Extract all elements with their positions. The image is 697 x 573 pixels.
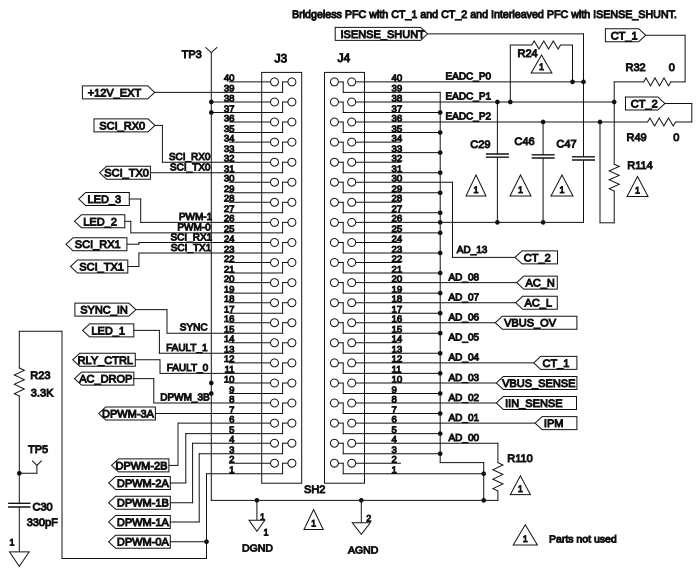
svg-text:ISENSE_SHUNT: ISENSE_SHUNT	[341, 29, 426, 41]
svg-text:J4: J4	[338, 51, 351, 65]
svg-text:10: 10	[392, 374, 403, 385]
svg-text:DPWM-2A: DPWM-2A	[117, 478, 170, 490]
svg-text:18: 18	[224, 294, 235, 305]
svg-text:38: 38	[224, 93, 235, 104]
svg-text:32: 32	[392, 154, 403, 165]
svg-text:20: 20	[392, 274, 403, 285]
svg-text:2: 2	[392, 455, 397, 466]
svg-text:14: 14	[224, 334, 235, 345]
svg-text:PWM-1: PWM-1	[179, 212, 213, 223]
svg-text:16: 16	[224, 314, 235, 325]
svg-text:LED_2: LED_2	[83, 216, 117, 228]
svg-text:TP5: TP5	[28, 444, 48, 456]
svg-text:32: 32	[224, 154, 235, 165]
svg-text:CT_1: CT_1	[611, 30, 638, 42]
svg-text:34: 34	[224, 133, 235, 144]
svg-text:SCI_RX1: SCI_RX1	[171, 232, 213, 243]
svg-text:RLY_CTRL: RLY_CTRL	[78, 355, 133, 367]
svg-text:AC_DROP: AC_DROP	[79, 374, 132, 386]
svg-text:22: 22	[224, 254, 235, 265]
svg-text:38: 38	[392, 93, 403, 104]
svg-text:26: 26	[224, 214, 235, 225]
svg-text:14: 14	[392, 334, 403, 345]
svg-text:1: 1	[559, 185, 564, 195]
svg-text:AD_04: AD_04	[449, 353, 480, 364]
svg-text:LED_3: LED_3	[88, 194, 122, 206]
svg-text:SH2: SH2	[304, 484, 325, 496]
svg-text:CT_1: CT_1	[543, 358, 570, 370]
svg-text:6: 6	[392, 414, 397, 425]
svg-text:C29: C29	[470, 139, 490, 151]
svg-text:1: 1	[10, 538, 15, 548]
svg-text:C47: C47	[556, 139, 576, 151]
svg-text:VBUS_SENSE: VBUS_SENSE	[502, 378, 575, 390]
svg-text:SCI_TX0: SCI_TX0	[170, 163, 211, 174]
svg-text:1: 1	[518, 484, 523, 494]
svg-text:0: 0	[673, 132, 679, 144]
svg-text:AD_03: AD_03	[449, 373, 480, 384]
svg-text:IPM: IPM	[544, 418, 564, 430]
svg-text:24: 24	[224, 234, 235, 245]
svg-text:DGND: DGND	[242, 543, 273, 555]
svg-text:1: 1	[539, 62, 544, 72]
svg-text:R49: R49	[627, 132, 647, 144]
svg-text:1: 1	[229, 465, 234, 476]
svg-text:AD_13: AD_13	[457, 245, 488, 256]
svg-text:CT_2: CT_2	[524, 252, 551, 264]
svg-text:EADC_P1: EADC_P1	[446, 92, 492, 103]
svg-text:28: 28	[392, 194, 403, 205]
svg-text:AD_05: AD_05	[449, 333, 480, 344]
svg-text:TP3: TP3	[182, 49, 202, 61]
svg-text:1: 1	[635, 186, 640, 196]
svg-text:3.3K: 3.3K	[31, 388, 54, 400]
svg-text:DPWM-2B: DPWM-2B	[116, 460, 168, 472]
svg-text:AD_06: AD_06	[449, 313, 480, 324]
svg-text:4: 4	[392, 435, 398, 446]
svg-text:8: 8	[392, 394, 397, 405]
svg-text:Parts not used: Parts not used	[549, 534, 617, 546]
svg-text:VBUS_OV: VBUS_OV	[504, 318, 557, 330]
svg-text:26: 26	[392, 214, 403, 225]
svg-text:R23: R23	[30, 370, 50, 382]
svg-text:40: 40	[224, 73, 235, 84]
svg-text:SCI_TX1: SCI_TX1	[79, 262, 124, 274]
svg-text:DPWM-1A: DPWM-1A	[117, 517, 170, 529]
svg-text:FAULT_1: FAULT_1	[166, 343, 208, 354]
svg-text:34: 34	[392, 133, 403, 144]
svg-text:+12V_EXT: +12V_EXT	[88, 87, 142, 99]
svg-text:30: 30	[392, 174, 403, 185]
svg-text:1: 1	[473, 185, 478, 195]
svg-text:22: 22	[392, 254, 403, 265]
svg-text:LED_1: LED_1	[91, 325, 125, 337]
svg-text:330pF: 330pF	[27, 517, 58, 529]
svg-text:R24: R24	[518, 48, 538, 60]
svg-text:DPWM-3A: DPWM-3A	[102, 409, 155, 421]
svg-text:FAULT_0: FAULT_0	[167, 363, 209, 374]
svg-text:18: 18	[392, 294, 403, 305]
svg-text:AD_02: AD_02	[449, 393, 480, 404]
svg-text:EADC_P0: EADC_P0	[446, 71, 492, 82]
svg-text:SCI_RX0: SCI_RX0	[99, 120, 145, 132]
svg-text:8: 8	[229, 394, 234, 405]
svg-text:10: 10	[224, 374, 235, 385]
svg-text:R110: R110	[507, 453, 532, 465]
svg-text:SCI_TX1: SCI_TX1	[171, 243, 212, 254]
svg-text:DPWM-1B: DPWM-1B	[117, 498, 169, 510]
svg-text:30: 30	[224, 174, 235, 185]
svg-text:J3: J3	[275, 52, 288, 66]
svg-text:DPWM-0A: DPWM-0A	[117, 537, 170, 549]
svg-text:Bridgeless PFC with CT_1 and C: Bridgeless PFC with CT_1 and CT_2 and In…	[292, 9, 677, 21]
svg-text:SCI_RX1: SCI_RX1	[75, 239, 121, 251]
svg-text:1: 1	[518, 185, 523, 195]
svg-text:36: 36	[224, 113, 235, 124]
svg-text:SCI_RX0: SCI_RX0	[169, 152, 211, 163]
svg-text:20: 20	[224, 274, 235, 285]
svg-text:AD_01: AD_01	[449, 413, 480, 424]
svg-text:AD_07: AD_07	[449, 293, 480, 304]
svg-text:AC_L: AC_L	[525, 298, 553, 310]
svg-text:12: 12	[392, 354, 403, 365]
svg-text:C30: C30	[33, 502, 53, 514]
svg-text:DPWM_3B: DPWM_3B	[160, 393, 210, 404]
svg-text:SYNC_IN: SYNC_IN	[80, 305, 128, 317]
svg-text:SCI_TX0: SCI_TX0	[104, 168, 149, 180]
svg-text:1: 1	[523, 534, 528, 544]
svg-text:36: 36	[392, 113, 403, 124]
svg-text:EADC_P2: EADC_P2	[446, 112, 492, 123]
svg-text:24: 24	[392, 234, 403, 245]
svg-text:C46: C46	[514, 136, 534, 148]
svg-text:2: 2	[366, 514, 371, 524]
svg-text:40: 40	[392, 73, 403, 84]
svg-text:16: 16	[392, 314, 403, 325]
svg-text:12: 12	[224, 354, 235, 365]
svg-text:CT_2: CT_2	[631, 99, 658, 111]
svg-text:AGND: AGND	[348, 545, 379, 557]
svg-text:AD_08: AD_08	[449, 272, 480, 283]
svg-text:6: 6	[229, 414, 234, 425]
svg-text:AD_00: AD_00	[449, 433, 480, 444]
svg-text:1: 1	[260, 512, 265, 522]
svg-text:0: 0	[669, 62, 675, 74]
svg-text:4: 4	[229, 435, 235, 446]
svg-text:28: 28	[224, 194, 235, 205]
svg-text:2: 2	[229, 455, 234, 466]
svg-text:R114: R114	[627, 160, 652, 172]
svg-text:AC_N: AC_N	[526, 278, 555, 290]
svg-text:R32: R32	[626, 62, 646, 74]
svg-text:IIN_SENSE: IIN_SENSE	[505, 398, 562, 410]
svg-text:SYNC: SYNC	[180, 323, 208, 334]
svg-text:1: 1	[264, 528, 269, 538]
svg-text:1: 1	[392, 465, 397, 476]
svg-text:1: 1	[311, 519, 316, 529]
